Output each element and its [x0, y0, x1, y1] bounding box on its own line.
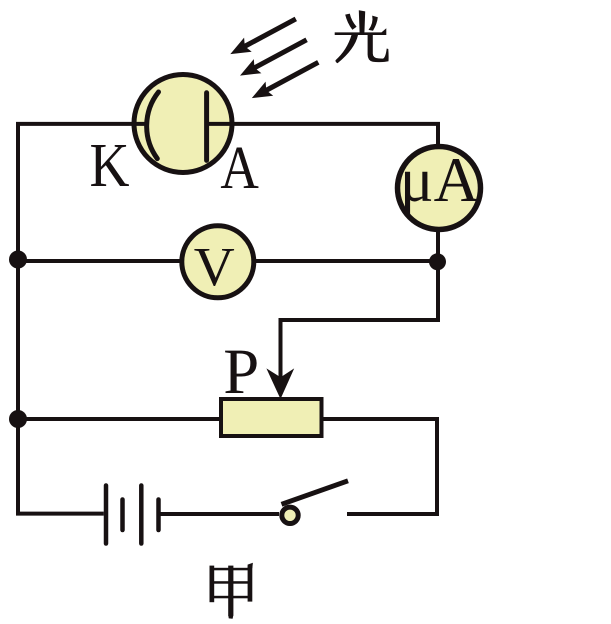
node A (left middle junction): [9, 251, 27, 269]
phototube U1 (photocell): [134, 75, 232, 173]
label 光 (light) drawn as SVG strokes: [335, 10, 389, 63]
cathode K arc inside phototube: [147, 92, 159, 159]
label 甲 drawn as SVG strokes: [210, 563, 253, 619]
svg-text:V: V: [194, 236, 235, 297]
switch pivot: [282, 507, 298, 523]
wire top-right from phototube anode to microammeter: [207, 124, 438, 147]
microammeter U2: [398, 147, 481, 230]
voltmeter V1: [182, 226, 254, 298]
wire left rail to potentiometer: [18, 417, 221, 421]
svg-text:μA: μA: [400, 145, 480, 215]
svg-text:A: A: [220, 135, 259, 202]
wire voltmeter branch: [18, 259, 182, 263]
wire potentiometer to right rail down to switch contact: [322, 419, 438, 514]
anode A plate inside phototube: [204, 93, 209, 161]
light arrow 3: [252, 62, 318, 98]
light arrow 2: [240, 40, 307, 76]
wire battery to switch: [159, 512, 280, 516]
svg-text:K: K: [90, 132, 130, 200]
wire: [254, 259, 438, 263]
battery plate short 1: [120, 500, 125, 531]
battery plate short 2: [156, 500, 161, 531]
battery BT1 plate long 1: [104, 486, 109, 544]
node C (left lower junction): [9, 410, 27, 428]
battery plate long 2: [139, 486, 144, 544]
potentiometer wiper arrow: [266, 368, 294, 399]
wire top-left from phototube cathode to left rail: [18, 124, 147, 514]
wire from microammeter down to node B: [281, 229, 439, 385]
light arrow 1: [230, 19, 295, 54]
node B (right junction): [429, 253, 446, 270]
potentiometer R1 body: [221, 399, 322, 436]
switch S1 lever: [282, 481, 349, 505]
